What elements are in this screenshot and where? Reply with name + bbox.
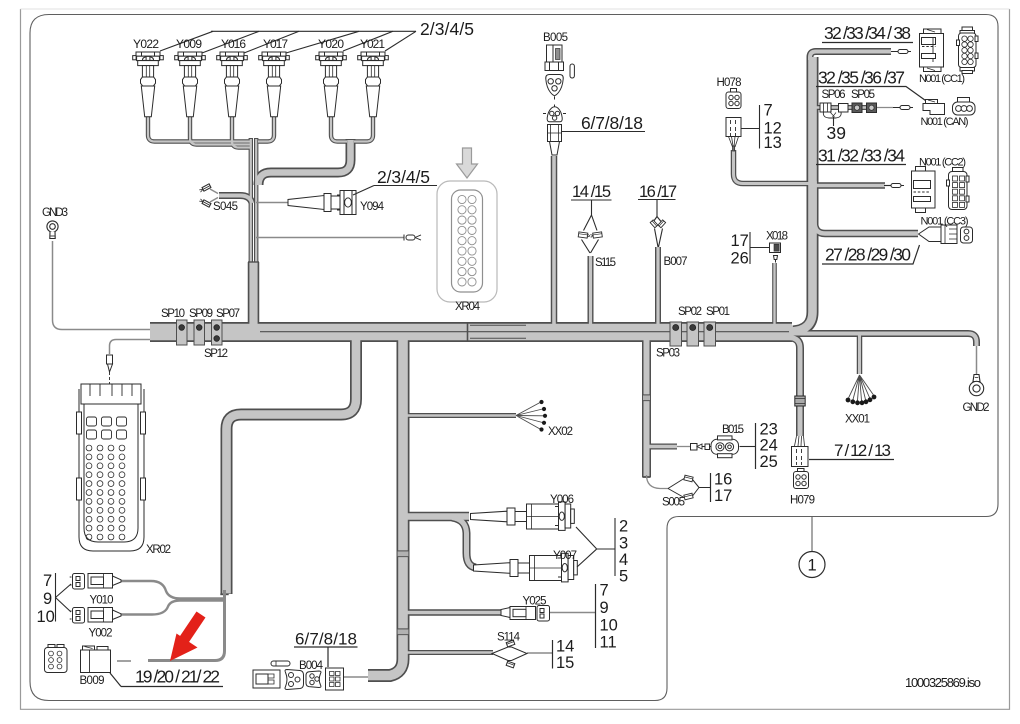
wire to XX01 dark — [857, 334, 863, 374]
svg-text:SP07: SP07 — [216, 308, 240, 320]
wire CAN row dark — [812, 105, 876, 110]
wire to CC3 dark — [815, 183, 919, 234]
node S114 — [492, 640, 527, 668]
svg-text:H078: H078 — [717, 77, 742, 89]
wire from S115 dark — [588, 256, 594, 324]
wire B015 thin — [677, 446, 690, 448]
callout 17 26 (X018) — [750, 232, 769, 264]
svg-text:5: 5 — [619, 568, 628, 586]
SP03 drop seam — [643, 395, 650, 401]
svg-text:7: 7 — [764, 102, 773, 120]
svg-text:15: 15 — [556, 654, 574, 672]
arrow marker above XR04 — [457, 148, 478, 178]
callout circle 1 — [811, 517, 813, 552]
svg-text:Y094: Y094 — [360, 201, 385, 213]
connector Y010 plug — [88, 574, 121, 589]
svg-text:Y025: Y025 — [523, 596, 547, 608]
connector Y006 — [471, 502, 575, 531]
injector wire Y017 dark — [258, 115, 274, 142]
svg-text:SP01: SP01 — [706, 306, 730, 318]
wire GND2 thin — [976, 346, 978, 375]
svg-text:1: 1 — [808, 557, 817, 575]
wire to Y025 light — [403, 611, 501, 615]
svg-text:Y010: Y010 — [90, 595, 114, 607]
connector H078 — [726, 89, 741, 152]
svg-text:9: 9 — [43, 590, 52, 608]
callout 23 24 25 (B015) — [755, 423, 757, 469]
svg-text:B004: B004 — [299, 660, 324, 672]
injector bundle twin wire left dark — [249, 138, 253, 263]
wire B009 stub — [117, 660, 131, 662]
wire from X018 dark — [772, 263, 777, 324]
connector Y094 — [288, 191, 356, 215]
wire riser to N001 dark — [793, 57, 813, 332]
svg-text:4: 4 — [619, 551, 628, 569]
XR02 pin circles — [86, 445, 125, 540]
svg-text:2/3/4/5: 2/3/4/5 — [377, 167, 430, 187]
wire to CC2 dark — [813, 182, 885, 189]
wire riser top to CC1 light — [810, 52, 891, 61]
callout 6/7/8/18 (B004) — [294, 647, 358, 667]
svg-text:7: 7 — [43, 572, 52, 590]
svg-text:13: 13 — [764, 134, 782, 152]
splice SP10 — [177, 320, 188, 345]
wire trunk light — [150, 324, 792, 341]
svg-text:2/3/4/5: 2/3/4/5 — [420, 19, 474, 39]
svg-text:XX02: XX02 — [548, 426, 573, 438]
wire from B007 dark — [655, 247, 661, 324]
svg-text:SP12: SP12 — [204, 348, 228, 360]
wire drop to H079 dark — [791, 338, 800, 437]
wire to Y010 — [121, 581, 223, 599]
svg-text:N001 (CC1): N001 (CC1) — [919, 73, 965, 85]
injector wire Y021 dark — [354, 115, 373, 142]
wire riser light — [792, 57, 813, 332]
svg-text:16 /17: 16 /17 — [639, 183, 677, 201]
wire to XR02 pin — [110, 340, 151, 355]
wire fork to Y006 dark — [406, 512, 469, 522]
svg-text:7: 7 — [600, 582, 609, 600]
callout 7 9 10 11 (Y025) — [595, 584, 597, 648]
splice SP02 — [687, 322, 699, 346]
splice SP03 — [670, 322, 682, 346]
terminal on single lead — [404, 235, 421, 241]
node XX01 — [849, 375, 874, 401]
injector mini bundle right light — [259, 140, 351, 185]
injector bundle lower solid dark — [248, 262, 260, 324]
svg-text:Y020: Y020 — [318, 37, 344, 51]
wire to XX01 light — [858, 332, 861, 374]
wire to XX02 dark — [404, 413, 516, 418]
connector B009 aux — [45, 645, 68, 673]
splice SP09 — [194, 320, 205, 345]
splice SP07 SP12 — [212, 320, 223, 345]
connector Y017 — [259, 52, 290, 117]
svg-text:17: 17 — [714, 487, 732, 505]
svg-text:XR04: XR04 — [455, 301, 481, 313]
injector bundle twin wire right dark — [254, 138, 258, 263]
svg-text:SP05: SP05 — [851, 89, 875, 101]
svg-text:N001 (CC2): N001 (CC2) — [919, 157, 966, 169]
svg-text:Y021: Y021 — [360, 37, 385, 51]
connector Y002 plug — [88, 608, 121, 623]
svg-text:11: 11 — [600, 634, 617, 652]
wire to CC3 light — [815, 181, 919, 234]
wire branch to XR02 side light — [227, 338, 357, 594]
svg-text:10: 10 — [37, 608, 55, 626]
svg-text:Y009: Y009 — [176, 37, 202, 51]
connector Y010 2pin — [70, 574, 85, 590]
callout 14 15 (S114) — [552, 640, 554, 669]
svg-text:14 /15: 14 /15 — [572, 183, 611, 201]
svg-text:9: 9 — [600, 599, 609, 617]
connector S045 terminals — [199, 184, 218, 207]
wire 19/20/21/22 — [148, 590, 225, 661]
wire drop to SP03/B015 dark — [642, 341, 651, 477]
stub to S045 light — [219, 196, 252, 204]
svg-text:2: 2 — [619, 518, 628, 536]
connector Y021 — [358, 52, 389, 117]
ground GND2 — [969, 375, 983, 396]
svg-text:32 /35 /36 /37: 32 /35 /36 /37 — [818, 68, 905, 88]
splice SP01 — [704, 322, 716, 346]
svg-text:SP06: SP06 — [822, 89, 846, 101]
wire to Y002 — [121, 601, 223, 615]
ground GND3 — [47, 221, 58, 239]
wire trunk tail light — [789, 334, 977, 347]
injector wires light — [148, 115, 250, 142]
wire drop to H079 light — [790, 338, 800, 437]
svg-text:3: 3 — [619, 535, 628, 553]
svg-text:S114: S114 — [497, 632, 521, 644]
svg-text:10: 10 — [600, 617, 618, 635]
wire from H078 light — [734, 150, 813, 184]
svg-text:N001 (CC3): N001 (CC3) — [921, 216, 969, 228]
wire CAN row thin — [876, 107, 893, 109]
svg-text:SP03: SP03 — [656, 348, 680, 360]
connector N001 (CC2) socket — [947, 168, 970, 210]
svg-text:XR02: XR02 — [146, 544, 171, 556]
svg-text:GND3: GND3 — [42, 207, 68, 219]
connector N001 (CC2) relay — [912, 167, 936, 213]
wire to S114 dark — [404, 650, 493, 655]
connector B005 mating — [543, 105, 566, 156]
seam shade bands — [398, 395, 650, 634]
svg-text:SP10: SP10 — [161, 308, 185, 320]
branch B wrap seams — [398, 551, 409, 635]
wire to XX02 light — [402, 414, 516, 417]
svg-text:N001 (CAN): N001 (CAN) — [921, 116, 969, 128]
connector Y025 — [501, 606, 550, 622]
connector Y002 2pin — [70, 608, 85, 624]
injector mini bundle right dark — [259, 139, 351, 185]
callout 7 9 10 (Y010/Y002) — [56, 573, 72, 622]
svg-text:XX01: XX01 — [845, 414, 870, 426]
svg-text:32 /33 /34 / 38: 32 /33 /34 / 38 — [824, 23, 911, 43]
connector X018 — [770, 243, 781, 263]
svg-text:31 /32 /33 /34: 31 /32 /33 /34 — [818, 146, 905, 166]
svg-text:Y006: Y006 — [550, 494, 574, 506]
callout 6/7/8/18 (B005) — [561, 131, 645, 133]
connector N001 (CC3) — [919, 225, 973, 244]
svg-text:26: 26 — [731, 250, 749, 268]
callout 2 3 4 5 (Y006/Y007) — [576, 518, 615, 576]
wire stub to B015 light — [648, 445, 677, 448]
label 39 — [833, 117, 835, 126]
bundle seams and collars — [220, 262, 789, 635]
svg-text:Y017: Y017 — [263, 37, 288, 51]
callout 7 12 13 (H078) — [741, 105, 760, 149]
wire S114 to callout — [527, 652, 553, 654]
wire branch to XR02 side dark — [227, 340, 357, 594]
svg-text:7 / 12 / 13: 7 / 12 / 13 — [834, 441, 891, 460]
connector N001 (CC1) relay — [920, 29, 944, 72]
bundle end caps — [642, 476, 650, 478]
connector N001 (CC1) socket — [957, 27, 979, 74]
svg-text:X018: X018 — [766, 231, 788, 243]
callout 16 17 (S005) — [710, 473, 712, 502]
terminal CC1 lead — [891, 50, 911, 54]
wire branch to B004 dark — [368, 340, 403, 676]
connector Y009 — [175, 52, 206, 117]
connector XR02 — [77, 384, 146, 551]
svg-text:SP09: SP09 — [189, 308, 213, 320]
svg-text:B009: B009 — [80, 675, 105, 687]
svg-text:GND2: GND2 — [963, 402, 990, 414]
wire from B005 light — [552, 156, 556, 326]
wire from S115 light — [589, 256, 592, 326]
wire to S114 light — [402, 651, 493, 654]
connector B004 — [326, 668, 344, 690]
connector N001 (CAN) plug — [923, 100, 945, 115]
connector XR04 — [437, 181, 497, 302]
callout 2/3/4/5 (Y094) — [353, 186, 437, 196]
wire long single lead — [256, 237, 404, 239]
svg-text:Y016: Y016 — [221, 37, 246, 51]
svg-text:1000325869.iso: 1000325869.iso — [905, 675, 981, 690]
svg-text:39: 39 — [827, 123, 846, 143]
svg-text:25: 25 — [760, 453, 778, 471]
svg-text:B015: B015 — [722, 424, 744, 436]
svg-text:S005: S005 — [662, 497, 685, 509]
terminal CC2 lead — [884, 184, 904, 188]
connector B005 — [545, 45, 574, 100]
svg-text:27 /28 /29 /30: 27 /28 /29 /30 — [825, 245, 911, 265]
connector XR02 pin lead — [107, 355, 113, 384]
connector Y022 — [133, 52, 164, 117]
wire S005 thin — [647, 475, 669, 489]
svg-text:6/7/8/18: 6/7/8/18 — [581, 113, 643, 133]
injector wire Y009 dark — [190, 115, 250, 145]
connector B009 — [81, 646, 111, 673]
wire GND3 — [53, 241, 151, 330]
wire from H078 dark — [734, 150, 811, 184]
svg-text:SP02: SP02 — [678, 306, 702, 318]
red arrow marker — [170, 612, 206, 662]
connector Y020 — [316, 52, 347, 117]
trunk divider seam — [260, 331, 789, 333]
wire to Y025 dark — [405, 609, 501, 616]
svg-text:Y002: Y002 — [89, 628, 113, 640]
wire Y025 to callout — [549, 612, 596, 614]
collar on trunk — [467, 322, 469, 342]
svg-text:14: 14 — [556, 638, 574, 656]
svg-text:B005: B005 — [543, 32, 568, 44]
node S005 — [668, 479, 711, 498]
injector bundle twin wires light — [250, 139, 252, 262]
connector B004 triangle A — [285, 670, 304, 690]
wire to CC2 light — [811, 184, 885, 188]
connector B004 plug — [253, 661, 290, 688]
node XX02 — [516, 403, 544, 430]
svg-text:S115: S115 — [595, 257, 616, 269]
wire from B005 dark — [551, 156, 558, 324]
callout 7/12/13 (H079) — [809, 459, 894, 461]
svg-text:Y022: Y022 — [133, 37, 159, 51]
wire from B007 light — [656, 247, 659, 326]
connector B004 triangle B — [306, 671, 321, 688]
injector bundle lower solid light — [249, 263, 257, 325]
injector wire Y022 dark — [148, 115, 250, 142]
wire riser top to CC1 dark — [810, 52, 891, 60]
connector Y016 — [217, 52, 248, 117]
wire stub to B015 dark — [649, 444, 677, 450]
wire fork to Y006 light — [404, 513, 469, 519]
injector callout leader lines — [160, 31, 416, 53]
connector N001 (CAN) socket — [953, 98, 976, 116]
svg-text:19 /20 / 21/ 22: 19 /20 / 21/ 22 — [135, 667, 220, 687]
wire CC2 thin — [885, 185, 893, 187]
connector B015 row — [691, 436, 756, 458]
svg-text:Y007: Y007 — [553, 550, 577, 562]
callout 19/20/21/22 — [110, 673, 223, 687]
injector wire Y016 dark — [232, 115, 250, 148]
svg-text:6/7/8/18: 6/7/8/18 — [295, 630, 357, 649]
wire trunk tail to GND2 dark — [790, 334, 977, 347]
connector H079 — [792, 396, 809, 489]
splice row SP06 SP05 — [820, 103, 877, 118]
wire B004 thin — [344, 676, 368, 678]
wire CAN row light — [810, 106, 876, 109]
wire to Y094 — [256, 202, 288, 204]
svg-text:16: 16 — [714, 471, 732, 489]
wire trunk dark — [150, 322, 792, 342]
wire drop to SP03/B015 light — [644, 339, 650, 477]
stub to S045 dark — [219, 196, 252, 204]
svg-text:B007: B007 — [664, 256, 688, 268]
injector wire Y020 dark — [331, 115, 347, 142]
injector bundle seam — [248, 261, 259, 263]
wire fork to Y007 dark — [452, 518, 476, 568]
node S115 — [571, 200, 612, 253]
svg-text:24: 24 — [760, 437, 778, 455]
svg-text:17: 17 — [731, 232, 749, 250]
svg-text:H079: H079 — [790, 495, 815, 507]
wire fork to Y007 light — [452, 518, 476, 568]
wire branch to B004 light — [368, 338, 403, 676]
wire from X018 light — [773, 263, 775, 326]
svg-text:S045: S045 — [213, 201, 238, 213]
connector Y007 — [474, 553, 578, 582]
node B007 — [638, 200, 676, 248]
